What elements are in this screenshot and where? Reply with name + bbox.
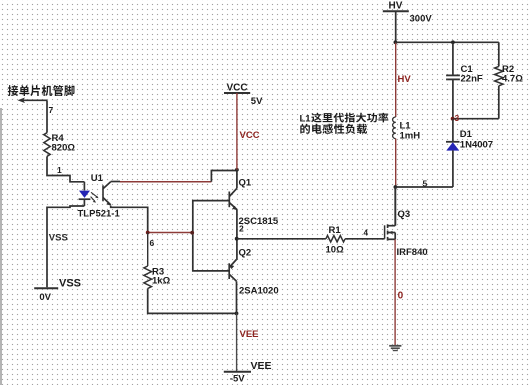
node 6 label [150,238,155,248]
junction on VCC line [235,168,239,172]
svg-text:Q3: Q3 [398,209,411,220]
junction VEE rail [235,312,239,316]
wire R1 to gate [345,238,385,240]
base rail wire [193,201,230,271]
net label 0 (red) [398,290,404,301]
opto-coupler U1 TLP521-1: LED [79,182,91,206]
MOSFET Q3 IRF840 [385,187,396,241]
resistor R4 [44,133,50,157]
wire Q2 collector down [236,281,238,313]
svg-text:D1: D1 [460,129,473,140]
wire Q3 source to ground (net 0, maroon) [394,239,396,345]
node 7 label [49,105,54,115]
wire node6 down to R3 [147,233,149,267]
svg-text:Q1: Q1 [239,178,252,189]
svg-text:1kΩ: 1kΩ [152,276,171,287]
D1 labels [460,129,493,151]
U1 label [91,173,104,184]
annotation: 的电感性负载 [300,124,367,134]
net label HV (red) [398,74,412,85]
inductor L1 [393,117,396,139]
top rail HV to C1/R2 [395,41,498,43]
diode D1 1N4007 [446,119,460,187]
svg-text:820Ω: 820Ω [52,143,76,154]
svg-text:1: 1 [57,165,62,175]
node 3 rail [453,118,499,120]
wire HV down to junction [395,11,397,42]
svg-text:VSS: VSS [59,278,81,290]
R2 labels [502,64,523,85]
svg-text:VCC: VCC [240,130,260,141]
R3 labels [152,267,171,287]
wire R3 to VEE rail [148,289,237,314]
svg-text:TLP521-1: TLP521-1 [78,209,121,220]
svg-text:Q2: Q2 [239,248,252,259]
net label VCC (red) [240,130,260,141]
svg-text:U1: U1 [91,173,104,184]
power symbol HV 300V [383,1,433,25]
junction node6 left [146,231,150,235]
svg-text:VEE: VEE [251,360,272,372]
wire emitters to R1 [237,238,326,240]
R4 value labels [52,133,76,154]
U1 part number label [78,209,121,220]
power symbol VCC 5V [224,83,263,108]
Q1 labels [239,178,279,228]
U1 light arrows [91,192,99,202]
wire VCC junction to Q1 collector [236,170,238,189]
svg-text:7: 7 [49,105,54,115]
junction HV split [394,40,398,44]
svg-text:IRF840: IRF840 [397,247,428,258]
Q2 labels [239,248,279,297]
wire HV net down to L1 (maroon) [395,42,397,117]
wire VCC down (net VCC, maroon) [236,93,238,170]
C1 labels [461,64,483,85]
svg-text:2SA1020: 2SA1020 [239,286,279,297]
ground symbol [389,346,401,351]
annotation: L1这里代指大功率 [300,113,389,125]
net label VSS [49,233,68,244]
node 3 label (red) [455,113,460,123]
svg-text:L1: L1 [300,114,312,125]
svg-text:6: 6 [150,238,155,248]
junction node 3 [451,117,455,121]
R1 labels [326,225,345,256]
node 4 label [364,229,369,238]
svg-text:22nF: 22nF [461,74,483,85]
svg-text:2SC1815: 2SC1815 [239,216,279,227]
wire with arrow to MCU pin [18,98,48,104]
capacitor C1 [446,42,460,118]
svg-text:-5V: -5V [230,373,245,384]
junction base rail [190,231,194,235]
resistor R2 [495,42,503,118]
svg-text:VCC: VCC [227,83,248,94]
svg-text:VEE: VEE [240,329,259,340]
svg-text:2: 2 [239,224,244,234]
svg-text:1N4007: 1N4007 [460,140,493,151]
junction emitters [235,237,239,241]
wire step up to VCC line [211,171,237,182]
svg-text:3: 3 [455,113,460,123]
red wire node6 to base rail [148,232,193,234]
power symbol VSS 0V [34,278,81,303]
wire U1 collector (red segment) [111,181,212,183]
wire arrow corner down to R4 [46,100,48,132]
svg-text:1mH: 1mH [400,131,421,142]
wire node5 down to Q3 drain [394,187,396,226]
svg-text:5: 5 [423,179,428,189]
svg-text:VSS: VSS [49,233,68,244]
emitter rail Q1-Q2 [236,210,238,260]
node 1 label [57,165,62,175]
svg-text:4: 4 [364,229,369,238]
transistor Q1 [229,188,237,210]
svg-text:4.7Ω: 4.7Ω [502,74,523,85]
U1 phototransistor [103,182,111,206]
svg-text:HV: HV [389,1,403,12]
svg-text:0V: 0V [39,292,51,303]
Q3 labels [397,209,428,258]
svg-text:300V: 300V [410,14,433,25]
svg-text:R1: R1 [329,225,342,236]
svg-text:0: 0 [398,290,404,301]
node 5 rail [395,186,453,188]
L1 labels [400,121,421,142]
net label VEE (red) [240,329,259,340]
wire to VEE symbol [236,313,238,371]
svg-text:5V: 5V [251,96,263,107]
resistor R3 [144,266,152,289]
wire L1 to node5 (maroon) [395,139,397,187]
svg-text:10Ω: 10Ω [326,245,345,256]
annotation: 接单片机管脚 (connect to MCU pin) [8,85,75,96]
power symbol VEE -5V [224,360,272,384]
wire R4 to opto pin1 [47,156,84,181]
wire LED cathode to VSS rail [47,206,84,287]
svg-text:HV: HV [398,74,412,85]
transistor Q2 [229,260,237,282]
node 5 label [423,179,428,189]
junction node5 [394,185,398,189]
node 2 label [239,224,244,234]
wire U1 emitter to node 6 [111,206,148,232]
resistor R1 [326,236,345,242]
junction C1 top [451,40,455,44]
